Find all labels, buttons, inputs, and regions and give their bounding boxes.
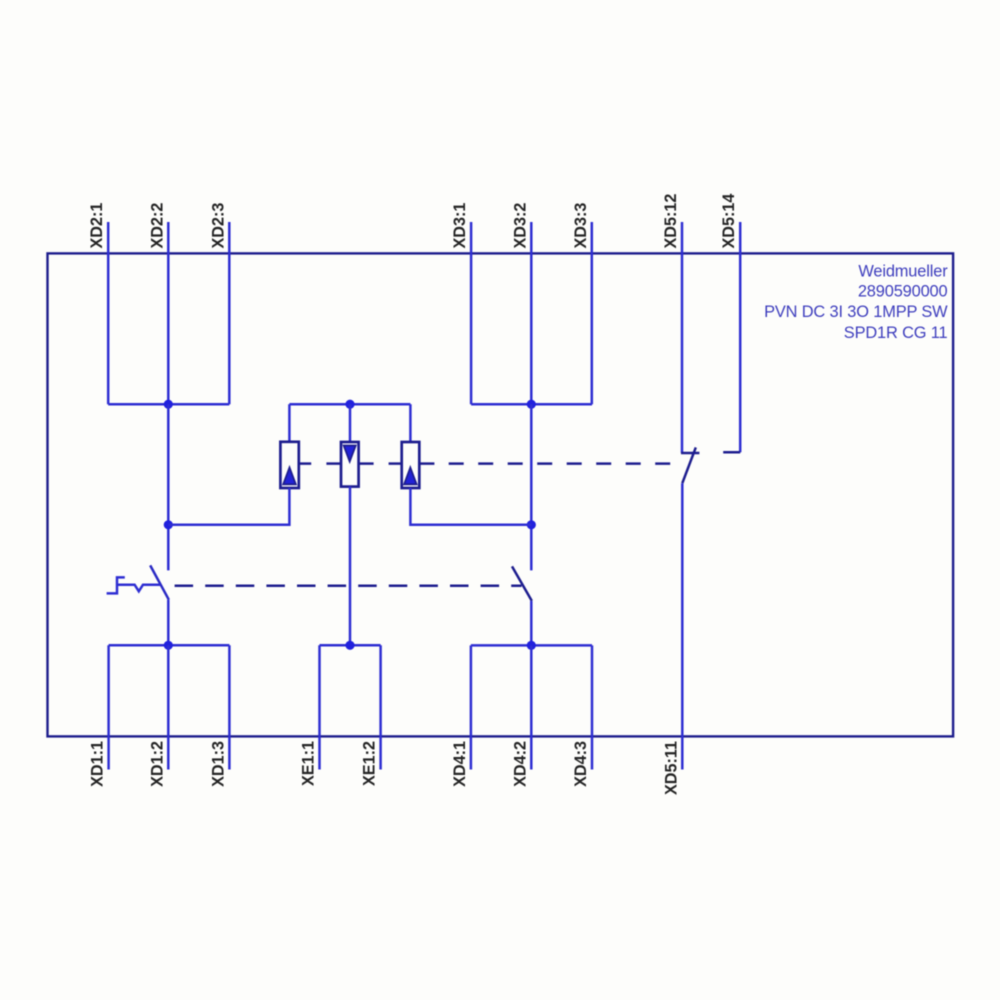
surge arrester F2 arrow <box>344 446 356 462</box>
terminal XD4:3 wire <box>591 645 594 769</box>
svg-text:XE1:1: XE1:1 <box>300 741 318 786</box>
svg-text:XD2:2: XD2:2 <box>148 203 166 249</box>
wire F1 top lead <box>288 404 291 442</box>
wire bridge XE1:1-XE1:2 <box>320 644 381 647</box>
terminal XD3:3 wire <box>591 222 594 404</box>
surge arrester F1 body <box>280 442 298 488</box>
wire bridge XD1:1-XD1:3 <box>109 644 230 647</box>
mechanical link dashed lower <box>175 585 522 588</box>
wire F2 top lead <box>349 404 352 442</box>
svg-text:XD1:2: XD1:2 <box>148 741 166 787</box>
terminal XD5:12 wire <box>681 222 684 453</box>
surge arrester F3 arrow <box>404 468 417 485</box>
terminal XD5:14 wire <box>739 222 742 452</box>
wire XD2:2 drop <box>167 404 170 570</box>
wire arrester top rail <box>289 403 410 406</box>
svg-text:XD5:12: XD5:12 <box>662 194 680 249</box>
svg-text:XD2:3: XD2:3 <box>209 203 227 249</box>
switch S3 blade <box>682 447 696 483</box>
actuator link with spring notch <box>117 585 161 592</box>
node arrester rail junction <box>345 400 354 409</box>
node XD1 bridge junction <box>164 641 173 650</box>
svg-text:XD5:11: XD5:11 <box>662 741 680 795</box>
svg-text:XD4:3: XD4:3 <box>572 741 590 787</box>
contact XD5:12 fixed tick <box>681 452 699 455</box>
F3 status tick left <box>389 462 402 465</box>
mechanical link dashed upper <box>449 462 672 465</box>
svg-text:XD3:3: XD3:3 <box>572 203 590 249</box>
svg-text:XD5:14: XD5:14 <box>720 194 738 249</box>
svg-text:2890590000: 2890590000 <box>858 282 948 300</box>
node F1 bottom junction <box>164 520 173 529</box>
node XE bridge junction <box>345 641 354 650</box>
svg-text:XD4:2: XD4:2 <box>511 741 529 787</box>
terminal XD1:2 wire <box>167 645 170 769</box>
wire F1 bottom lead <box>168 488 289 525</box>
contact XD5:14 fixed tick <box>723 451 740 454</box>
terminal XD1:1 wire <box>107 645 110 769</box>
terminal XD2:1 wire <box>107 222 110 404</box>
terminal XD2:3 wire <box>228 222 231 404</box>
F2 status tick left <box>326 462 341 465</box>
wire S2 lower lead <box>530 601 533 646</box>
wire F2 bottom lead <box>349 487 352 646</box>
terminal XD1:3 wire <box>228 645 231 769</box>
node F3 bottom junction <box>527 520 536 529</box>
svg-text:XD4:1: XD4:1 <box>451 741 469 787</box>
wire XD5:11 common <box>681 483 684 769</box>
svg-text:XD3:1: XD3:1 <box>451 203 469 249</box>
wire S1 lower lead <box>167 600 170 646</box>
svg-text:PVN DC 3I 3O 1MPP SW: PVN DC 3I 3O 1MPP SW <box>764 303 948 321</box>
title block text <box>764 263 948 343</box>
switch S1 blade <box>150 565 169 599</box>
wire XD3:2 drop <box>530 404 533 570</box>
F2 status tick right <box>359 462 374 465</box>
terminal XD4:1 wire <box>470 645 473 769</box>
wire F3 top lead <box>409 404 412 442</box>
surge arrester F3 body <box>402 442 420 488</box>
node XD3 bridge junction <box>527 400 536 409</box>
manual actuator symbol <box>107 577 125 593</box>
F3 status tick right <box>419 462 434 465</box>
enclosure border <box>48 253 954 736</box>
wire F3 bottom lead <box>410 488 531 525</box>
terminal XE1:2 wire <box>379 645 382 769</box>
terminal XE1:1 wire <box>318 645 321 769</box>
terminal XD3:2 wire <box>530 222 533 404</box>
terminal XD3:1 wire <box>470 222 473 404</box>
wire bridge XD4:1-XD4:3 <box>471 644 592 647</box>
svg-text:XD3:2: XD3:2 <box>511 203 529 249</box>
svg-text:Weidmueller: Weidmueller <box>858 263 948 281</box>
svg-text:XD2:1: XD2:1 <box>88 203 106 249</box>
svg-text:SPD1R CG 11: SPD1R CG 11 <box>844 324 948 342</box>
F1 status tick right <box>299 462 311 465</box>
svg-text:XD1:1: XD1:1 <box>89 741 107 787</box>
switch S2 blade <box>512 566 532 601</box>
terminal XD2:2 wire <box>167 222 170 404</box>
node XD4 bridge junction <box>527 641 536 650</box>
wire bridge XD2:1-XD2:3 <box>108 403 229 406</box>
terminal XD4:2 wire <box>530 645 533 769</box>
svg-text:XE1:2: XE1:2 <box>361 741 379 786</box>
node XD2 bridge junction <box>164 400 173 409</box>
surge arrester F1 arrow <box>283 468 296 485</box>
surge arrester F2 body <box>341 442 359 487</box>
svg-text:XD1:3: XD1:3 <box>209 741 227 787</box>
wire bridge XD3:1-XD3:3 <box>471 403 592 406</box>
